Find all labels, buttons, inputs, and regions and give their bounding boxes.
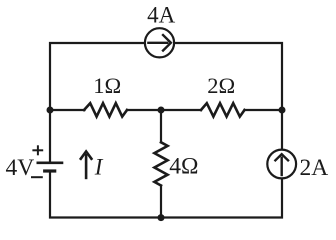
resistor 1ohm [84,103,127,116]
minus sign [31,176,43,178]
wire center vertical bottom [160,186,162,218]
current source 2A [267,150,296,179]
plus sign [32,145,43,155]
svg-text:2Ω: 2Ω [207,73,235,98]
svg-text:4Ω: 4Ω [169,153,198,179]
node center [158,107,165,114]
current source 4A [145,28,174,57]
wire middle right stub [245,109,283,111]
wire middle center [127,109,201,111]
wire left above battery [49,110,51,162]
voltage source 4V battery plates [37,163,64,171]
wire bottom [50,110,282,218]
node right [279,107,286,114]
svg-text:2A: 2A [300,155,329,181]
node left [47,107,54,114]
current arrow I [80,151,92,179]
svg-text:I: I [94,155,104,180]
wire center vertical top [160,110,162,142]
wire middle left stub [50,109,85,111]
node bottom [158,214,165,221]
svg-text:1Ω: 1Ω [93,73,121,98]
svg-text:4V: 4V [6,155,35,181]
svg-text:4A: 4A [147,3,176,28]
resistor 2ohm [201,103,245,116]
resistor 4ohm [154,142,167,185]
wire top [50,43,282,110]
